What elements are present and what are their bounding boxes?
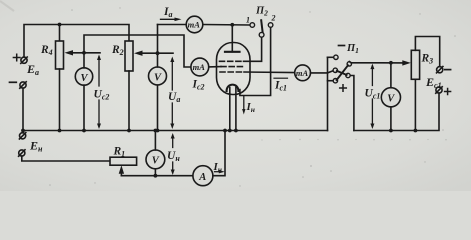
svg-text:V: V xyxy=(152,156,160,167)
annotation Uc2 voltage arrow xyxy=(94,55,110,130)
paper background xyxy=(0,0,471,191)
wire: +Ea top bus from terminal up and right to R2 xyxy=(24,25,129,58)
node: A riser on ground bus xyxy=(223,129,227,133)
milliammeter mA2 (screen current Ic2) xyxy=(191,58,209,92)
voltmeter V4 (Uh) xyxy=(146,131,165,176)
tube cathode / filament xyxy=(227,85,239,131)
milliammeter mA1 (anode current) xyxy=(186,16,203,33)
wire: riser from top bus to R4 xyxy=(59,25,61,42)
wire: R1 wiper from below with arrow xyxy=(119,165,124,175)
switch P2 xyxy=(246,6,276,38)
node: R3 on plus bus xyxy=(414,129,418,133)
svg-text:2: 2 xyxy=(271,14,276,23)
annotation Uh voltage arrow xyxy=(167,133,180,175)
node: junction top bus / R4 xyxy=(58,23,62,27)
resistor R2 (potentiometer) xyxy=(111,41,133,71)
node: V4 on heater line xyxy=(154,174,158,178)
tube envelope xyxy=(217,43,251,95)
node: R2 wiper / V2 riser junction xyxy=(156,51,160,55)
tube grid 3 (to P2 pole) xyxy=(220,60,244,62)
annotation Ic1 average label xyxy=(274,78,288,93)
node: anode riser junction xyxy=(230,23,234,27)
milliammeter mA3 (grid current Ic1) xyxy=(295,65,311,81)
wire: mA1 to switch contact 1 xyxy=(203,24,250,27)
svg-text:mA: mA xyxy=(296,68,309,78)
wire: ground bus xyxy=(23,130,328,132)
resistor R4 (potentiometer) xyxy=(40,41,64,69)
wire: R4 wiper arm with arrow xyxy=(65,50,101,55)
node: filament legs on ground bus xyxy=(228,129,232,133)
node: V3 riser on bias wire xyxy=(389,61,393,65)
wire: P2 pole down to grid3 lead xyxy=(244,38,262,62)
voltmeter V2 (Ua) xyxy=(149,25,167,131)
svg-text:mA: mA xyxy=(188,20,201,30)
svg-text:A: A xyxy=(198,172,206,183)
resistor R3 (potentiometer) xyxy=(411,50,433,79)
terminal Eh upper xyxy=(19,133,25,139)
terminal -Ea xyxy=(10,82,27,88)
terminal -Ec1 xyxy=(437,67,451,73)
wire: anode top wire from V2 riser to mA1 xyxy=(158,24,187,26)
wire: R2 bottom to ground bus xyxy=(128,71,130,131)
node: R2 on ground bus xyxy=(127,129,131,133)
wire: +Ec1 down to plus bus xyxy=(354,93,439,130)
wire: R2 wiper arm with arrow to anode node xyxy=(134,51,173,56)
wire: P2 contact 2 down to cathode xyxy=(240,28,271,96)
wire: ammeter right up to ground bus xyxy=(213,131,225,176)
node: ground bus corner at Ea/Eh xyxy=(21,129,25,133)
terminal Eh lower xyxy=(19,150,25,156)
voltmeter V1 (Uc2) xyxy=(75,53,92,131)
node: R4 wiper junction xyxy=(82,51,86,55)
svg-text:mA: mA xyxy=(193,62,206,72)
annotation Ua voltage arrow xyxy=(168,57,180,130)
svg-text:V: V xyxy=(81,73,89,84)
node: V4/V2 on ground bus xyxy=(154,129,158,133)
svg-text:V: V xyxy=(154,72,162,83)
wire: R3 bottom to plus bus xyxy=(414,79,416,130)
annotation Uc1 voltage arrow xyxy=(365,64,381,129)
terminal +Ec1 xyxy=(436,87,451,95)
node: V2 on ground bus xyxy=(156,129,160,133)
wire: Eh lower to R1 xyxy=(22,156,110,161)
tube anode plate with lead xyxy=(225,25,240,52)
node: V3 on plus bus xyxy=(389,129,393,133)
wire: P1 top output to R3 wiper xyxy=(349,60,411,65)
annotation Ia current arrow xyxy=(161,6,182,21)
ammeter A (heater current) xyxy=(193,166,213,186)
tube grid 1 (control, to mA3) xyxy=(220,71,295,74)
wire: P1 bottom output down to plus bus xyxy=(350,76,354,131)
node: V1 on ground bus xyxy=(82,129,86,133)
wire: mA3 to switch P1 xyxy=(311,71,334,73)
svg-text:1: 1 xyxy=(246,16,250,25)
faint top-left smudge xyxy=(0,1,14,11)
svg-text:V: V xyxy=(387,94,395,105)
resistor R1 (rheostat) xyxy=(110,146,137,166)
tube grid 2 (screen, to mA2) xyxy=(209,66,246,68)
annotation In filament current (at tube) xyxy=(242,97,255,115)
scan speckles xyxy=(49,7,456,186)
wire: -Ea down to ground bus and on to E_h terminal xyxy=(22,88,24,133)
annotation In current arrow (at ammeter) xyxy=(213,161,225,174)
node: R4 on ground bus xyxy=(58,129,62,133)
wire: R3 top to -Ec1 terminal xyxy=(415,37,439,67)
terminal +Ea xyxy=(13,54,27,63)
switch P1 (polarity reversing) xyxy=(328,43,359,131)
wire: R4 bottom to ground bus xyxy=(59,69,61,131)
wire: screen supply from wiper up and right to mA2 xyxy=(84,35,191,67)
wire: heater lower line to ammeter xyxy=(121,175,192,177)
voltmeter V3 (Uc1) xyxy=(381,63,400,131)
